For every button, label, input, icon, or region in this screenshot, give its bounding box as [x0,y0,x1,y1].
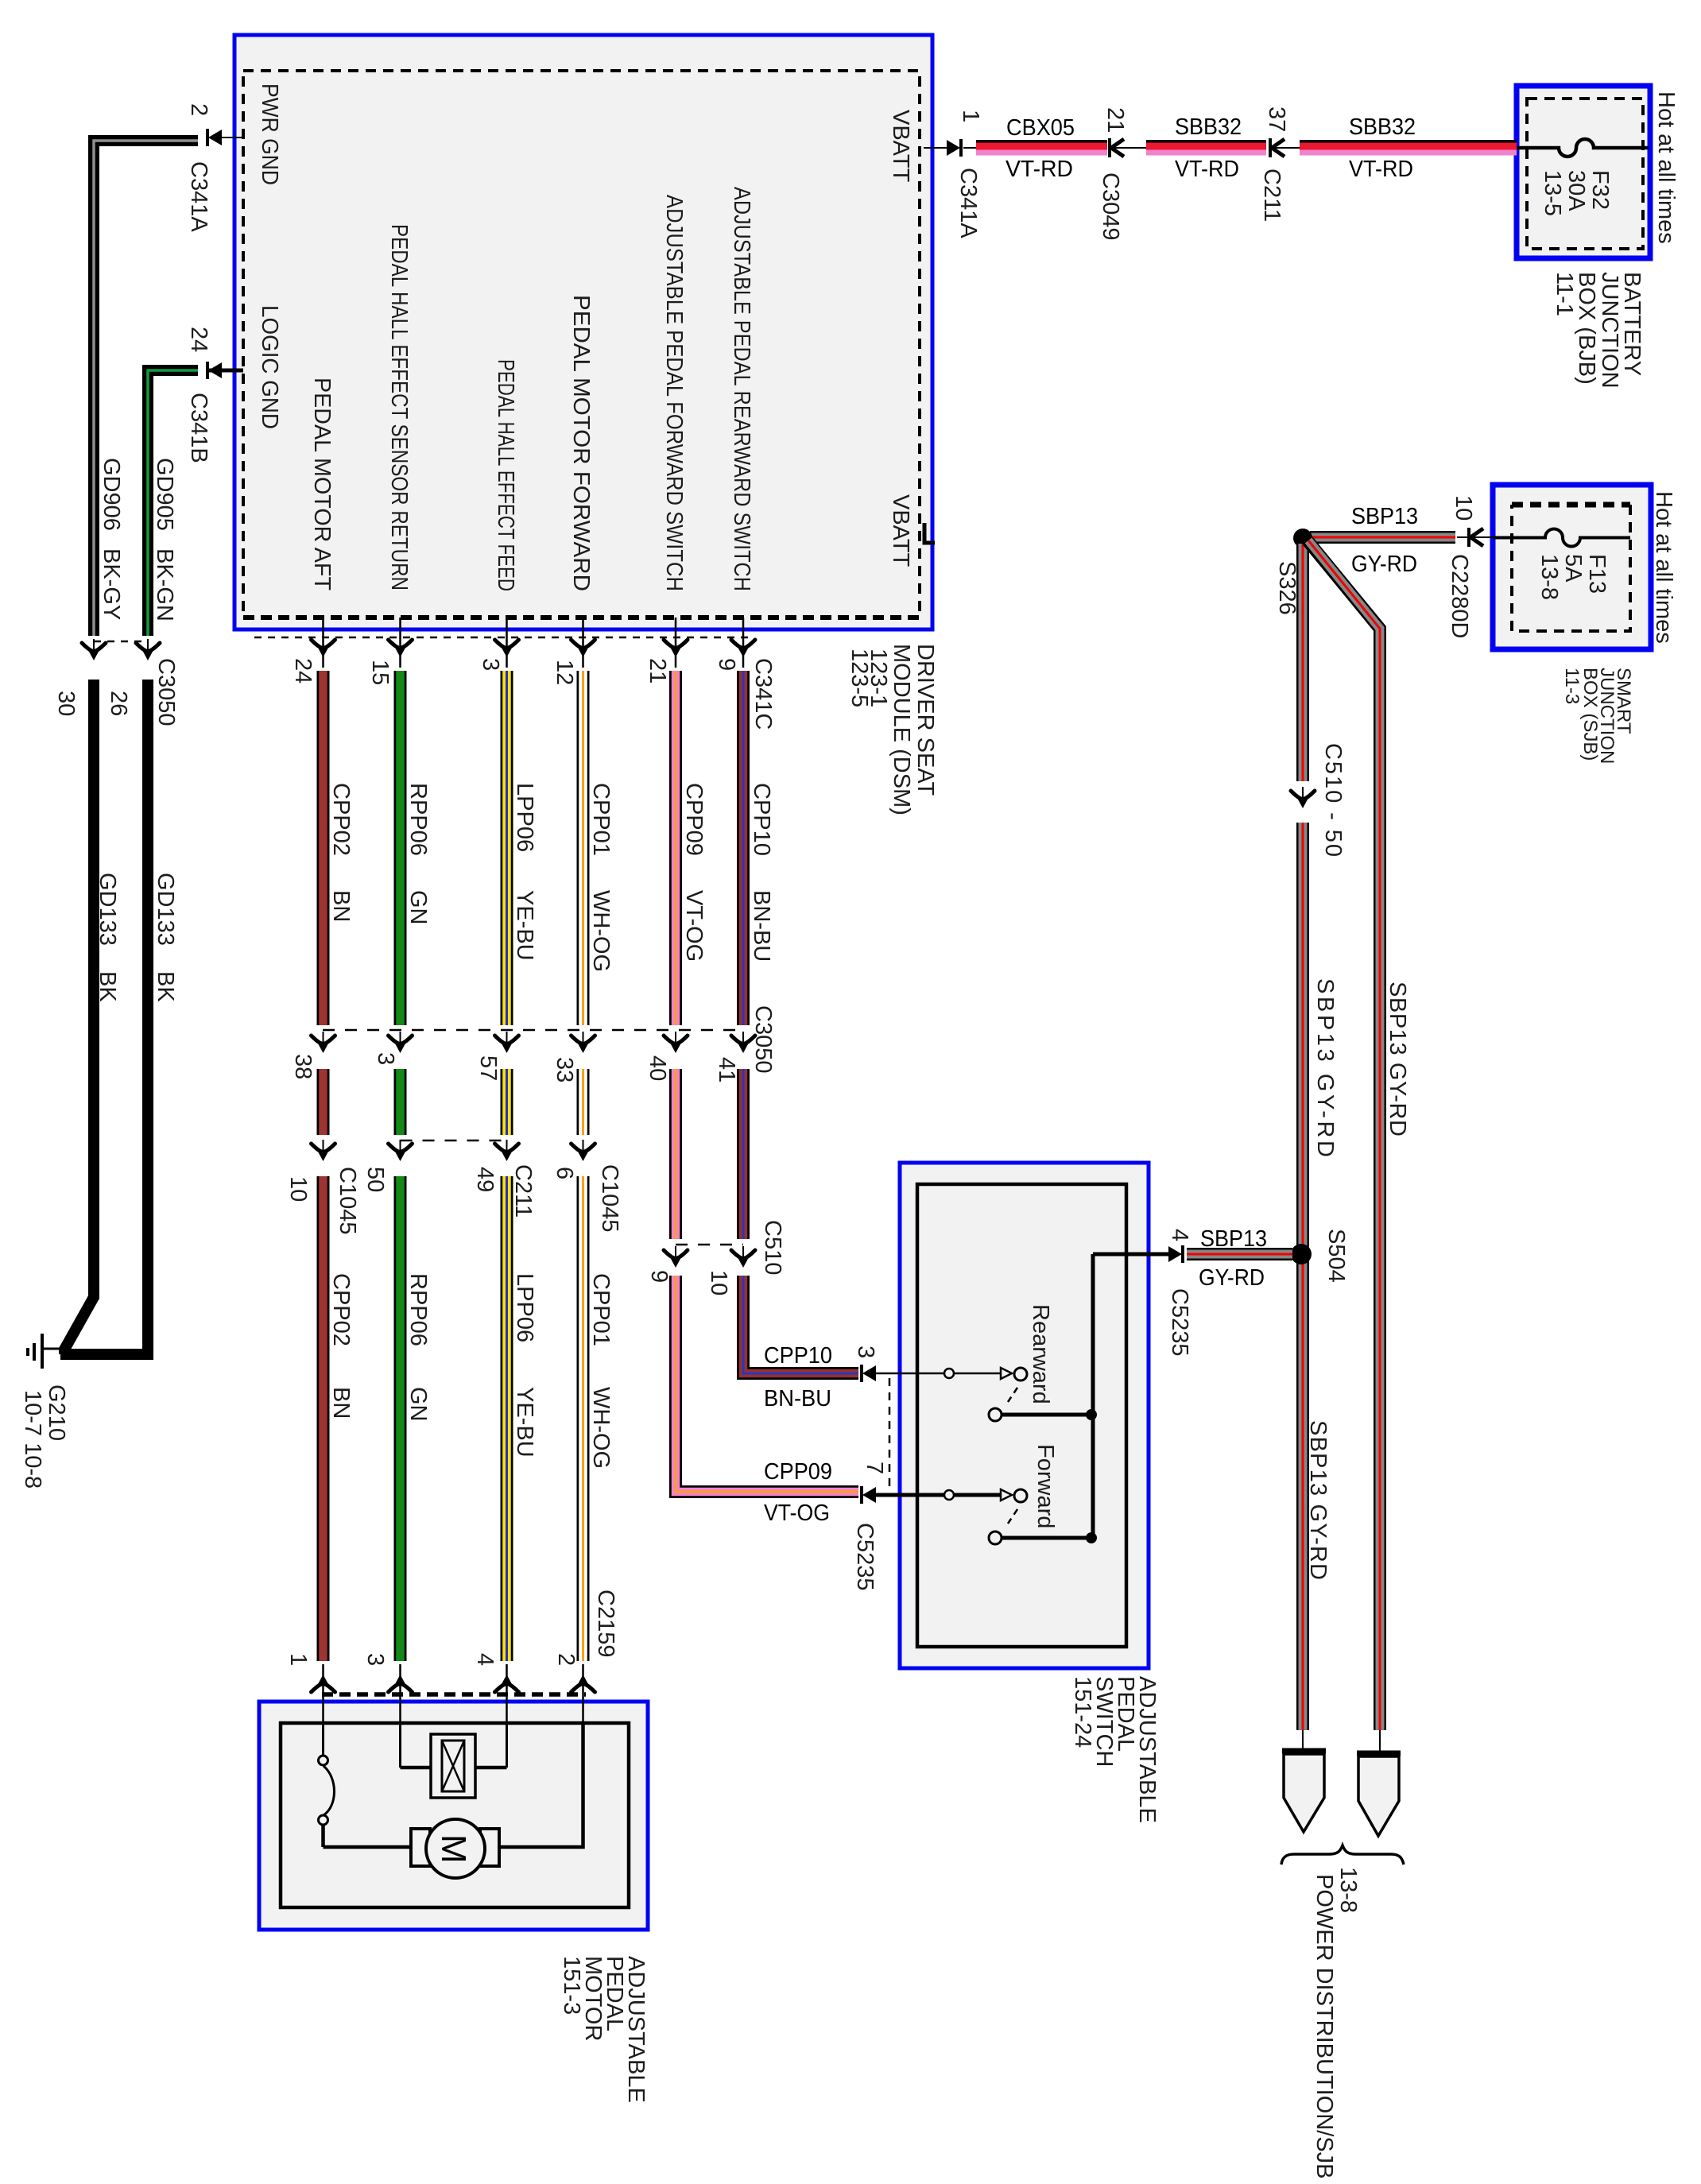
wire RPP06 GN segment 2 [394,1069,407,1135]
wire LPP06 YE-BU segment 1 [501,671,513,1025]
svg-text:9: 9 [714,658,739,671]
motor internal wiring left [324,1845,413,1849]
svg-text:BK: BK [153,971,178,1002]
wire GD133 BK right [60,680,148,1354]
svg-text:BK-GY: BK-GY [99,548,124,620]
svg-text:PEDAL HALL EFFECT SENSOR RETUR: PEDAL HALL EFFECT SENSOR RETURN [386,224,412,591]
svg-text:GN: GN [405,1387,431,1422]
svg-text:BK-GN: BK-GN [152,548,177,622]
label ADJUSTABLE PEDAL MOTOR 151-3 [559,1956,649,2103]
wire CPP01 WH-OG segment 2 [577,1069,590,1135]
ground G210 symbol [28,1334,60,1369]
svg-text:WH-OG: WH-OG [588,1387,614,1469]
wire CPP10 BN-BU segment 1 [737,671,750,1025]
svg-text:57: 57 [475,1055,501,1081]
connector pentagon right [1357,1730,1401,1836]
wire GD133 BK left [64,680,94,1354]
svg-text:POWER DISTRIBUTION/SJB: POWER DISTRIBUTION/SJB [1312,1874,1337,2178]
wire RPP06 GN segment 3 [394,1176,407,1661]
wire SBP13 GY-RD horizontal [1310,531,1455,544]
svg-text:50: 50 [362,1167,388,1192]
wire RPP06 GN segment 1 [394,671,407,1025]
svg-text:WH-OG: WH-OG [588,890,614,972]
connector C3049 [1098,107,1148,240]
svg-text:5A: 5A [1560,554,1586,583]
svg-text:21: 21 [645,658,670,683]
svg-text:GD905: GD905 [152,458,177,531]
wire SBP13 GY-RD to S504 [1187,1248,1292,1260]
DSM pin 12 lead [552,618,595,685]
svg-text:Hot at all times: Hot at all times [1653,91,1679,244]
svg-text:C341C: C341C [750,658,776,730]
connector pentagon left [1282,1730,1326,1832]
svg-text:VT-RD: VT-RD [1175,157,1239,182]
svg-text:BN-BU: BN-BU [764,1386,831,1411]
svg-text:CPP09: CPP09 [764,1459,832,1485]
wire LPP06 YE-BU segment 2 [501,1069,513,1135]
wire SBB32 VT-RD segment B [1146,140,1266,156]
motor M [411,1819,499,1878]
inline connector C510 row [646,1220,785,1295]
svg-text:30A: 30A [1563,170,1589,211]
svg-text:C3049: C3049 [1098,172,1123,240]
svg-text:RPP06: RPP06 [405,783,431,856]
svg-text:GY-RD: GY-RD [1199,1265,1265,1291]
wire CPP09 VT-OG L segment to switch [676,1276,858,1492]
svg-text:VBATT: VBATT [888,110,913,183]
svg-text:S504: S504 [1323,1229,1349,1283]
DSM pin 24 lead [290,618,335,683]
svg-text:JUNCTION: JUNCTION [1597,272,1622,389]
svg-text:F13: F13 [1584,554,1610,594]
svg-text:2: 2 [553,1653,579,1666]
svg-text:CPP10: CPP10 [749,783,774,856]
svg-text:151-24: 151-24 [1070,1676,1095,1748]
svg-text:PEDAL MOTOR FORWARD: PEDAL MOTOR FORWARD [568,295,594,591]
svg-text:Forward: Forward [1033,1444,1058,1528]
wire CPP10 BN-BU segment 2 [737,1069,750,1239]
fuse F32 30A [1517,139,1649,216]
motor position sensor X box [401,1723,507,1798]
DSM VBATT internal stub [924,523,935,543]
svg-text:PWR GND: PWR GND [257,83,282,185]
svg-text:YE-BU: YE-BU [512,890,537,961]
svg-text:SBP13 GY-RD: SBP13 GY-RD [1305,1420,1331,1580]
svg-text:37: 37 [1264,106,1289,132]
svg-text:C1045: C1045 [335,1167,360,1234]
svg-text:24: 24 [186,327,211,352]
svg-text:6: 6 [552,1167,577,1179]
svg-text:1: 1 [958,110,983,122]
svg-text:M: M [434,1834,473,1864]
wire CPP09 VT-OG segment 2 [669,1069,682,1239]
adjustable pedal motor box [259,1694,648,1930]
DSM pin 24 LOGIC GND lead [186,327,243,463]
svg-text:GD133: GD133 [153,873,178,946]
wire PWR GND BK-GY [94,141,198,636]
svg-text:13-5: 13-5 [1540,170,1565,216]
svg-text:C211: C211 [510,1164,536,1218]
motor internal wiring right [499,1723,583,1847]
svg-text:C510: C510 [760,1220,785,1275]
wire CPP01 WH-OG segment 3 [577,1176,590,1661]
svg-text:26: 26 [106,691,131,716]
svg-text:F32: F32 [1587,170,1613,210]
svg-text:10: 10 [706,1270,731,1295]
switch mechanical link dashed [889,1378,891,1490]
svg-text:C341B: C341B [186,393,211,463]
svg-text:PEDAL HALL EFFECT FEED: PEDAL HALL EFFECT FEED [493,359,518,591]
svg-text:3: 3 [853,1346,878,1358]
svg-text:4: 4 [1167,1229,1192,1241]
svg-text:C2159: C2159 [593,1590,618,1657]
svg-text:CPP01: CPP01 [588,1273,614,1346]
svg-text:3: 3 [478,658,503,671]
svg-text:SBP13 GY-RD: SBP13 GY-RD [1385,982,1410,1137]
inline connector C3050 left ground wires [53,639,179,726]
svg-text:10: 10 [1451,495,1476,521]
svg-text:MODULE (DSM): MODULE (DSM) [889,644,914,815]
svg-text:SBB32: SBB32 [1175,114,1242,140]
svg-text:C341A: C341A [186,161,211,232]
DSM pin 15 lead [367,618,413,685]
svg-text:38: 38 [290,1054,316,1079]
splice S504 [1291,1244,1312,1264]
svg-text:123-5: 123-5 [847,649,872,707]
svg-text:BN-BU: BN-BU [749,890,774,962]
svg-text:13-8: 13-8 [1536,554,1562,600]
svg-text:DRIVER SEAT: DRIVER SEAT [912,644,938,796]
switch internal feed vertical [1091,1254,1095,1538]
DSM pin 1 VBATT lead [924,110,983,238]
DSM pin 21 lead [645,618,688,683]
svg-text:33: 33 [552,1057,577,1082]
connector C211 [1259,106,1301,222]
splice S326 [1293,529,1312,548]
wire CPP02 BN segment 2 [317,1069,330,1135]
SJB pin 10 lead [1447,495,1493,638]
label G210 10-7 10-8 [20,1384,69,1489]
motor pin 1 lead [285,1653,335,1723]
brace 13-8 [1281,1845,1404,1865]
svg-text:VT-OG: VT-OG [764,1501,830,1526]
svg-text:C5235: C5235 [852,1523,878,1590]
smart junction box SJB [1493,485,1651,649]
switch Rearward [874,1368,1097,1421]
svg-text:SBB32: SBB32 [1349,114,1416,140]
battery junction box BJB [1517,86,1650,258]
motor pin 4 lead [472,1653,519,1723]
svg-text:C5235: C5235 [1167,1288,1192,1356]
DSM pin 9 lead [714,618,755,671]
switch pin 3 arrow [853,1346,878,1382]
wire CPP09 VT-OG segment 1 [669,671,682,1025]
svg-text:G210: G210 [44,1384,69,1441]
svg-text:BN: BN [328,1387,354,1419]
svg-text:VT-OG: VT-OG [681,890,707,962]
svg-text:30: 30 [53,691,79,716]
svg-text:GN: GN [405,890,431,925]
svg-text:CPP01: CPP01 [588,783,614,856]
DSM bottom connector dashed line C341C [254,637,754,639]
svg-text:CPP10: CPP10 [764,1343,832,1369]
svg-text:13-8: 13-8 [1335,1867,1361,1913]
svg-text:VT-RD: VT-RD [1005,157,1073,182]
label SMART JUNCTION BOX (SJB) 11-3 [1561,668,1634,764]
wire CBX05 VT-RD segment A [976,140,1107,156]
svg-text:LPP06: LPP06 [512,1273,537,1342]
svg-text:2: 2 [186,103,211,116]
svg-text:49: 49 [472,1167,498,1192]
svg-text:C1045: C1045 [597,1164,622,1232]
wire SBB32 VT-RD segment C [1300,140,1517,156]
DSM block label DRIVER SEAT MODULE (DSM) 123-1 123-5 [847,644,938,815]
svg-text:CPP02: CPP02 [328,1273,354,1346]
wire SBP13 GY-RD vertical left lower [1296,823,1309,1730]
svg-text:24: 24 [290,658,316,683]
svg-text:BN: BN [328,890,354,922]
svg-text:GY-RD: GY-RD [1351,552,1417,577]
svg-text:3: 3 [362,1653,388,1666]
motor internal pin1 switch contact [319,1723,335,1847]
label BATTERY JUNCTION BOX (BJB) 11-1 [1552,272,1645,389]
svg-text:LOGIC GND: LOGIC GND [257,305,282,429]
svg-text:ADJUSTABLE PEDAL REARWARD SWIT: ADJUSTABLE PEDAL REARWARD SWITCH [729,187,754,591]
switch feed line pin 4 [1093,1229,1192,1356]
fuse F13 5A [1493,529,1630,601]
svg-text:1: 1 [285,1653,311,1666]
DSM pin 3 lead [478,618,519,671]
svg-text:C341A: C341A [955,168,981,238]
svg-text:SBP13 GY-RD: SBP13 GY-RD [1312,978,1338,1157]
svg-text:C3050: C3050 [153,658,179,726]
svg-text:SBP13: SBP13 [1200,1226,1267,1252]
svg-text:RPP06: RPP06 [405,1273,431,1346]
svg-text:4: 4 [472,1653,498,1666]
svg-text:9: 9 [646,1270,672,1283]
driver seat module DSM box [234,35,932,629]
svg-text:11-3: 11-3 [1561,668,1583,704]
wire LPP06 YE-BU segment 3 [501,1176,513,1661]
svg-text:BK: BK [95,971,120,1002]
wire CPP01 WH-OG segment 1 [577,671,590,1025]
motor pin 3 lead [362,1653,413,1723]
motor pin 2 lead [553,1653,595,1723]
wire LOGIC GND BK-GN [148,370,198,636]
svg-text:15: 15 [367,660,393,685]
svg-text:VT-RD: VT-RD [1349,157,1413,182]
svg-text:41: 41 [714,1057,739,1082]
svg-text:12: 12 [552,660,577,685]
svg-text:LPP06: LPP06 [512,783,537,852]
svg-text:CPP02: CPP02 [328,783,354,856]
inline connector C1045 / C211 row [285,1140,622,1234]
wire SBP13 GY-RD diagonal + vertical right [1307,540,1380,1730]
svg-text:CPP09: CPP09 [681,783,707,856]
svg-text:CBX05: CBX05 [1006,115,1075,141]
adjustable pedal switch box [900,1163,1149,1668]
label 13-8 POWER DISTRIBUTION/SJB [1312,1867,1361,2178]
svg-text:Hot at all times: Hot at all times [1651,491,1676,644]
svg-text:Rearward: Rearward [1028,1304,1053,1404]
label ADJUSTABLE PEDAL SWITCH 151-24 [1070,1676,1160,1823]
svg-text:C3050: C3050 [750,1005,776,1073]
wire CPP02 BN segment 3 [317,1176,330,1661]
switch pin 7 arrow [852,1462,887,1590]
svg-text:21: 21 [1102,107,1128,133]
svg-text:VBATT: VBATT [888,494,913,567]
svg-text:S326: S326 [1274,561,1300,615]
DSM pin 2 PWR GND lead [186,103,243,232]
svg-text:11-1: 11-1 [1552,272,1577,316]
wire CPP10 BN-BU L segment to switch [743,1276,858,1373]
svg-text:10-7 10-8: 10-7 10-8 [20,1390,45,1489]
switch Forward [874,1489,1097,1544]
inline connector C510 - 50 [1291,743,1346,857]
wire CPP02 BN segment 1 [317,671,330,1025]
svg-text:10: 10 [285,1176,311,1202]
svg-text:GD133: GD133 [95,873,120,946]
wire SBP13 GY-RD vertical left upper [1296,538,1309,781]
svg-text:151-3: 151-3 [559,1956,584,2015]
svg-text:C2280D: C2280D [1447,554,1472,638]
svg-text:7: 7 [862,1462,887,1474]
svg-text:ADJUSTABLE PEDAL FORWARD SWITC: ADJUSTABLE PEDAL FORWARD SWITCH [661,195,687,591]
svg-text:SBP13: SBP13 [1351,504,1418,529]
svg-text:GD906: GD906 [99,458,124,531]
svg-text:40: 40 [645,1055,670,1081]
inline connector C3050 row [290,1005,776,1082]
svg-text:YE-BU: YE-BU [512,1387,537,1458]
svg-text:3: 3 [373,1052,398,1065]
svg-text:C211: C211 [1259,168,1284,222]
svg-text:PEDAL MOTOR AFT: PEDAL MOTOR AFT [309,378,335,591]
